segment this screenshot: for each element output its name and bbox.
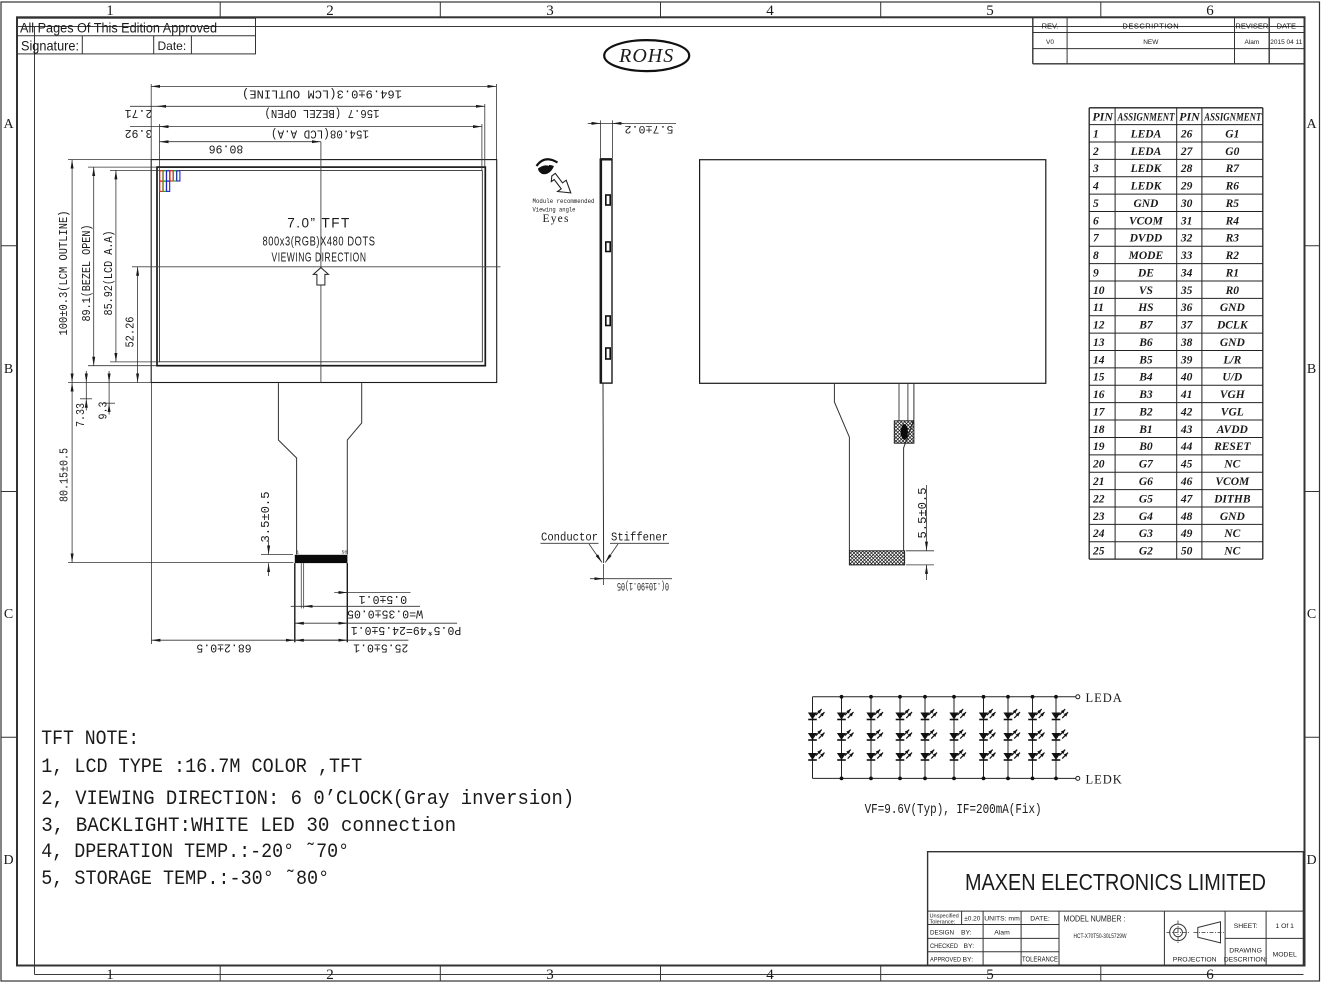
svg-text:16: 16 <box>1093 389 1105 401</box>
LED D1 <box>808 709 825 719</box>
pin assignment table <box>1088 108 1090 559</box>
svg-text:LEDA: LEDA <box>1086 691 1123 705</box>
svg-text:APPROVED: APPROVED <box>930 956 961 963</box>
svg-text:4: 4 <box>1092 181 1099 193</box>
LED D17 <box>949 730 966 740</box>
junction bottom rail col 4 <box>898 777 902 781</box>
svg-text:24: 24 <box>1092 528 1105 540</box>
side FPC bottom dim line <box>590 578 672 580</box>
svg-text:VCOM: VCOM <box>1129 215 1164 227</box>
svg-text:3: 3 <box>546 967 554 983</box>
LED D6 <box>837 750 854 760</box>
svg-text:2: 2 <box>326 967 334 983</box>
junction top rail col 2 <box>840 695 844 699</box>
wire LED string 2 <box>841 697 843 779</box>
svg-text:46: 46 <box>1180 476 1193 488</box>
svg-text:Stiffener: Stiffener <box>611 531 668 545</box>
svg-text:R1: R1 <box>1225 267 1239 279</box>
LED D19 <box>979 709 996 719</box>
svg-text:MAXEN ELECTRONICS LIMITED: MAXEN ELECTRONICS LIMITED <box>965 869 1266 895</box>
svg-text:21: 21 <box>1092 476 1105 488</box>
svg-text:10: 10 <box>1093 285 1105 297</box>
svg-text:LEDK: LEDK <box>1130 181 1163 193</box>
junction top rail col 4 <box>898 695 902 699</box>
front FPC connector black bar <box>295 555 348 563</box>
wire LED string 10 <box>1055 697 1057 779</box>
junction top rail col 3 <box>869 695 873 699</box>
svg-text:1: 1 <box>106 967 114 983</box>
junction top rail col 6 <box>952 695 956 699</box>
svg-text:DATE: DATE <box>1277 22 1296 31</box>
svg-text:4, DPERATION TEMP.:-20° ˜70°: 4, DPERATION TEMP.:-20° ˜70° <box>41 841 349 864</box>
svg-text:MODEL NUMBER :: MODEL NUMBER : <box>1064 915 1126 924</box>
svg-text:B6: B6 <box>1138 337 1153 349</box>
svg-text:5.5±0.5: 5.5±0.5 <box>917 487 930 538</box>
svg-text:PIN: PIN <box>1092 109 1114 123</box>
svg-text:V0: V0 <box>1046 39 1054 46</box>
front view horizontal centerline <box>147 266 501 268</box>
svg-text:Alam: Alam <box>994 929 1010 936</box>
wire LED string 6 <box>953 697 955 779</box>
svg-text:0.5±0.1: 0.5±0.1 <box>359 592 407 605</box>
svg-text:A: A <box>3 117 14 132</box>
svg-text:TFT NOTE:: TFT NOTE: <box>41 728 139 751</box>
LED D25 <box>1028 709 1045 719</box>
svg-text:G5: G5 <box>1139 493 1153 505</box>
svg-text:80.15±0.5: 80.15±0.5 <box>58 448 71 502</box>
LED D5 <box>837 730 854 740</box>
svg-text:3: 3 <box>1092 163 1099 175</box>
svg-text:80.96: 80.96 <box>209 142 244 155</box>
LED D30 <box>1051 750 1068 760</box>
svg-text:7.33: 7.33 <box>75 403 88 427</box>
dim 3.5 connector height <box>261 554 293 556</box>
svg-text:44: 44 <box>1180 441 1193 453</box>
LED D15 <box>920 750 937 760</box>
junction top rail col 7 <box>982 695 986 699</box>
svg-text:R2: R2 <box>1225 250 1240 262</box>
svg-text:UNITS: mm: UNITS: mm <box>984 916 1020 923</box>
back view outline rect <box>700 160 1046 384</box>
svg-text:18: 18 <box>1093 424 1105 436</box>
back view stiffener hatched bar <box>849 551 904 565</box>
svg-text:39: 39 <box>1180 354 1193 366</box>
svg-text:Module recommended: Module recommended <box>533 198 595 205</box>
svg-text:All Pages Of This Edition Appr: All Pages Of This Edition Approved <box>20 21 217 37</box>
svg-text:G3: G3 <box>1139 528 1153 540</box>
front view LCD active area rect <box>160 171 483 362</box>
svg-text:G4: G4 <box>1139 511 1153 523</box>
svg-text:30: 30 <box>1180 198 1193 210</box>
svg-text:0(.10±90.1)05: 0(.10±90.1)05 <box>617 579 669 591</box>
svg-text:5: 5 <box>1093 198 1099 210</box>
grid reference ticks right <box>1305 245 1320 247</box>
svg-text:VGH: VGH <box>1220 389 1246 401</box>
svg-text:100±0.3(LCM OUTLINE): 100±0.3(LCM OUTLINE) <box>58 211 71 336</box>
svg-text:B0: B0 <box>1138 441 1153 453</box>
eye symbol <box>537 159 558 166</box>
svg-text:VS: VS <box>1139 285 1153 297</box>
dim 80.15 tail length <box>68 562 294 564</box>
dim W=0.35 conductor width <box>291 605 420 607</box>
svg-text:G0: G0 <box>1225 146 1239 158</box>
svg-text:20: 20 <box>1092 459 1105 471</box>
LED D21 <box>979 750 996 760</box>
junction bottom rail col 3 <box>869 777 873 781</box>
svg-text:SHEET:: SHEET: <box>1234 923 1258 930</box>
svg-text:DE: DE <box>1137 267 1154 279</box>
LED D23 <box>1003 730 1020 740</box>
svg-text:PIN: PIN <box>1179 109 1201 123</box>
dim 68.2 tail offset <box>150 383 152 645</box>
svg-text:AVDD: AVDD <box>1216 424 1249 436</box>
grid reference ticks left <box>1 245 17 247</box>
svg-text:GND: GND <box>1133 198 1159 210</box>
svg-text:41: 41 <box>1180 389 1193 401</box>
LED D29 <box>1051 730 1068 740</box>
LED D28 <box>1051 709 1068 719</box>
LED D24 <box>1003 750 1020 760</box>
svg-text:NC: NC <box>1223 528 1240 540</box>
svg-text:50: 50 <box>1181 546 1193 558</box>
svg-text:RESET: RESET <box>1213 441 1251 453</box>
svg-text:Eyes: Eyes <box>543 213 570 225</box>
junction top rail col 5 <box>923 695 927 699</box>
svg-text:3.92: 3.92 <box>125 126 153 139</box>
svg-text:156.7 (BEZEL OPEN): 156.7 (BEZEL OPEN) <box>265 106 380 119</box>
svg-text:2: 2 <box>326 3 334 19</box>
grid reference ticks bottom <box>219 966 221 982</box>
svg-text:BY:: BY: <box>963 956 974 963</box>
wire LED string 4 <box>899 697 901 779</box>
LED D3 <box>808 750 825 760</box>
svg-text:6: 6 <box>1206 967 1214 983</box>
svg-text:68.2±0.5: 68.2±0.5 <box>196 641 251 654</box>
svg-text:DCLK: DCLK <box>1216 320 1249 332</box>
svg-text:49: 49 <box>1180 528 1193 540</box>
svg-text:B: B <box>1307 362 1316 377</box>
svg-text:1 Of 1: 1 Of 1 <box>1275 923 1294 930</box>
svg-text:37: 37 <box>1180 320 1194 332</box>
svg-text:LEDA: LEDA <box>1130 128 1162 140</box>
svg-text:3, BACKLIGHT:WHITE LED 30 conn: 3, BACKLIGHT:WHITE LED 30 connection <box>41 815 456 838</box>
svg-text:BY:: BY: <box>961 929 972 936</box>
back view FPC tail outline <box>834 383 914 550</box>
back view component wires <box>898 383 900 421</box>
dim 7.33 <box>80 398 92 400</box>
svg-text:VIEWING DIRECTION: VIEWING DIRECTION <box>272 251 367 265</box>
FPC highlighted conductor lines <box>300 563 302 608</box>
projection symbol cone <box>1198 922 1221 943</box>
svg-text:GND: GND <box>1220 337 1246 349</box>
svg-text:164.9±0.3(LCM OUTLINE): 164.9±0.3(LCM OUTLINE) <box>242 86 402 99</box>
svg-text:G6: G6 <box>1139 476 1153 488</box>
approval box <box>17 18 256 54</box>
svg-text:R3: R3 <box>1225 233 1240 245</box>
svg-text:2.71: 2.71 <box>125 106 153 119</box>
svg-text:1: 1 <box>1093 128 1099 140</box>
LED D26 <box>1028 730 1045 740</box>
svg-text:28: 28 <box>1180 163 1193 175</box>
LED D22 <box>1003 709 1020 719</box>
svg-text:19: 19 <box>1093 441 1105 453</box>
svg-text:2: 2 <box>1092 146 1099 158</box>
svg-text:6: 6 <box>1206 3 1214 19</box>
LED D16 <box>949 709 966 719</box>
svg-text:MODE: MODE <box>1128 250 1164 262</box>
svg-text:23: 23 <box>1092 511 1105 523</box>
svg-text:TOLERANCE: TOLERANCE <box>1022 956 1058 963</box>
svg-text:C: C <box>4 607 13 622</box>
svg-text:2, VIEWING DIRECTION: 6 0’CLOC: 2, VIEWING DIRECTION: 6 0’CLOCK(Gray inv… <box>41 788 574 811</box>
svg-text:40: 40 <box>1180 372 1193 384</box>
junction bottom rail col 10 <box>1054 777 1058 781</box>
junction bottom rail col 8 <box>1006 777 1010 781</box>
svg-text:5: 5 <box>986 967 994 983</box>
svg-text:13: 13 <box>1093 337 1105 349</box>
svg-text:DESIGN: DESIGN <box>930 929 954 936</box>
front FPC tail outline <box>278 383 361 554</box>
svg-text:Date:: Date: <box>158 39 187 53</box>
dim 85.92 active area height <box>110 169 160 171</box>
svg-text:LEDK: LEDK <box>1130 163 1163 175</box>
back view hatched component <box>894 421 914 443</box>
svg-text:Conductor: Conductor <box>541 531 598 545</box>
svg-text:A: A <box>1306 117 1317 132</box>
svg-text:G7: G7 <box>1139 459 1154 471</box>
terminal node LEDA <box>1076 695 1080 699</box>
front view vertical centerline <box>320 142 322 383</box>
dim 80.96 <box>159 124 161 170</box>
svg-text:154.08(LCD A.A): 154.08(LCD A.A) <box>271 126 369 139</box>
title block grid <box>928 910 1304 912</box>
svg-text:5: 5 <box>986 3 994 19</box>
dim 100 LCM outline height <box>68 159 151 161</box>
svg-text:GND: GND <box>1220 302 1246 314</box>
svg-text:2015 04 11: 2015 04 11 <box>1270 39 1302 46</box>
svg-text:47: 47 <box>1180 493 1194 505</box>
svg-text:4: 4 <box>766 3 774 19</box>
svg-text:G2: G2 <box>1139 546 1153 558</box>
svg-text:7.0” TFT: 7.0” TFT <box>287 216 351 231</box>
svg-text:8: 8 <box>1093 250 1099 262</box>
LED D10 <box>895 709 912 719</box>
junction bottom rail col 7 <box>982 777 986 781</box>
svg-text:LEDK: LEDK <box>1086 772 1123 786</box>
svg-text:B5: B5 <box>1138 354 1153 366</box>
svg-text:R4: R4 <box>1225 215 1240 227</box>
svg-text:25.5±0.1: 25.5±0.1 <box>353 641 408 654</box>
svg-text:CHECKED: CHECKED <box>930 943 958 950</box>
revision table <box>1032 17 1034 64</box>
wire LED string 8 <box>1007 697 1009 779</box>
svg-text:3: 3 <box>546 3 554 19</box>
svg-text:D: D <box>3 853 13 868</box>
svg-text:36: 36 <box>1180 302 1193 314</box>
svg-text:11: 11 <box>1093 302 1104 314</box>
LED D8 <box>866 730 883 740</box>
svg-text:4: 4 <box>766 967 774 983</box>
junction top rail col 10 <box>1054 695 1058 699</box>
svg-text:B1: B1 <box>1138 424 1152 436</box>
svg-text:ASSIGNMENT: ASSIGNMENT <box>1204 109 1262 123</box>
svg-text:34: 34 <box>1180 267 1193 279</box>
svg-text:800x3(RGB)X480 DOTS: 800x3(RGB)X480 DOTS <box>263 235 376 249</box>
wire LEDK bottom rail <box>813 777 1077 779</box>
svg-text:R0: R0 <box>1225 285 1240 297</box>
dim 164.9 LCM outline width <box>150 84 152 160</box>
svg-text:38: 38 <box>1180 337 1193 349</box>
svg-text:R7: R7 <box>1225 163 1241 175</box>
svg-text:LEDA: LEDA <box>1130 146 1162 158</box>
projection symbol circle <box>1170 924 1187 941</box>
svg-text:42: 42 <box>1180 406 1193 418</box>
svg-text:R5: R5 <box>1225 198 1240 210</box>
wire LED string 5 <box>924 697 926 779</box>
svg-text:±0.20: ±0.20 <box>964 916 981 923</box>
side view FPC line <box>602 383 605 563</box>
LED D4 <box>837 709 854 719</box>
svg-text:B3: B3 <box>1138 389 1153 401</box>
svg-text:3.5±0.5: 3.5±0.5 <box>260 491 273 542</box>
svg-text:6: 6 <box>1093 215 1099 227</box>
LED D20 <box>979 730 996 740</box>
svg-text:REVISER: REVISER <box>1235 22 1269 31</box>
svg-text:14: 14 <box>1093 354 1105 366</box>
FPC connector side edges below bar <box>294 563 296 642</box>
RGB pixel array top-left <box>160 171 163 181</box>
svg-text:26: 26 <box>1180 128 1193 140</box>
viewing angle pointer arrow <box>551 173 571 193</box>
svg-text:17: 17 <box>1093 406 1106 418</box>
svg-text:1, LCD TYPE :16.7M COLOR ,TFT: 1, LCD TYPE :16.7M COLOR ,TFT <box>41 756 362 779</box>
svg-text:VGL: VGL <box>1221 406 1244 418</box>
LED D18 <box>949 750 966 760</box>
svg-text:32: 32 <box>1180 233 1193 245</box>
svg-text:85.92(LCD A.A): 85.92(LCD A.A) <box>103 231 116 316</box>
svg-text:L/R: L/R <box>1222 354 1241 366</box>
side view connector bumps <box>606 195 610 205</box>
svg-text:48: 48 <box>1180 511 1193 523</box>
title block outer <box>928 852 1304 966</box>
svg-text:VCOM: VCOM <box>1215 476 1250 488</box>
wire LED string 9 <box>1032 697 1034 779</box>
junction bottom rail col 9 <box>1031 777 1035 781</box>
svg-text:43: 43 <box>1180 424 1193 436</box>
svg-text:31: 31 <box>1180 215 1193 227</box>
svg-text:GND: GND <box>1220 511 1246 523</box>
side view body <box>600 160 612 383</box>
svg-text:25: 25 <box>1092 546 1105 558</box>
grid reference ticks top <box>219 2 221 17</box>
ROHS logo ellipse <box>604 40 689 71</box>
svg-text:29: 29 <box>1180 181 1193 193</box>
svg-text:REV.: REV. <box>1042 22 1059 31</box>
svg-text:ASSIGNMENT: ASSIGNMENT <box>1117 109 1175 123</box>
svg-text:5, STORAGE TEMP.:-30° ˜80°: 5, STORAGE TEMP.:-30° ˜80° <box>41 868 329 891</box>
svg-text:89.1(BEZEL OPEN): 89.1(BEZEL OPEN) <box>81 225 94 322</box>
leader arrows to FPC tip <box>589 544 602 563</box>
LED D12 <box>895 750 912 760</box>
dim 156.7 bezel open width <box>484 104 486 167</box>
junction bottom rail col 5 <box>923 777 927 781</box>
svg-text:NC: NC <box>1223 546 1240 558</box>
dim 52.26 <box>132 266 147 268</box>
LED D7 <box>866 709 883 719</box>
svg-text:HCT-X70T50-30L5729W: HCT-X70T50-30L5729W <box>1074 933 1128 940</box>
svg-text:9.3: 9.3 <box>98 401 111 419</box>
LED D11 <box>895 730 912 740</box>
svg-text:Tolerance:: Tolerance: <box>930 919 956 925</box>
svg-text:1: 1 <box>296 550 299 556</box>
svg-text:P0.5*49=24.5±0.1: P0.5*49=24.5±0.1 <box>351 623 462 636</box>
svg-text:DATE:: DATE: <box>1030 916 1050 923</box>
svg-text:PROJECTION: PROJECTION <box>1173 956 1217 963</box>
svg-text:NEW: NEW <box>1143 39 1159 46</box>
svg-text:U/D: U/D <box>1222 372 1243 384</box>
inner drawing frame <box>34 27 36 975</box>
svg-text:Alam: Alam <box>1244 39 1259 46</box>
svg-text:MODEL: MODEL <box>1273 952 1297 959</box>
svg-text:NC: NC <box>1223 459 1240 471</box>
dim 0.5 edge margin <box>334 592 410 594</box>
svg-text:DESCRIPTION: DESCRIPTION <box>1122 22 1179 31</box>
svg-text:45: 45 <box>1180 459 1193 471</box>
viewing direction hollow arrow <box>313 268 328 285</box>
dim 25.5 connector width <box>288 639 409 641</box>
svg-text:15: 15 <box>1093 372 1105 384</box>
svg-text:52.26: 52.26 <box>125 316 138 347</box>
LED D9 <box>866 750 883 760</box>
wire LEDA top rail <box>813 696 1077 698</box>
LED D14 <box>920 730 937 740</box>
dim 9.3 <box>103 402 115 404</box>
svg-text:B7: B7 <box>1138 320 1154 332</box>
front view bezel opening rect <box>157 167 485 366</box>
junction bottom rail col 2 <box>840 777 844 781</box>
svg-text:B4: B4 <box>1138 372 1153 384</box>
svg-text:ROHS: ROHS <box>618 45 674 67</box>
svg-text:HS: HS <box>1137 302 1153 314</box>
svg-text:1: 1 <box>106 3 114 19</box>
wire LED string 7 <box>983 697 985 779</box>
svg-text:D: D <box>1306 853 1316 868</box>
junction bottom rail col 6 <box>952 777 956 781</box>
junction top rail col 8 <box>1006 695 1010 699</box>
svg-text:W=0.35±0.05: W=0.35±0.05 <box>347 606 423 619</box>
svg-text:33: 33 <box>1180 250 1193 262</box>
svg-text:9: 9 <box>1093 267 1099 279</box>
LED D13 <box>920 709 937 719</box>
dim 89.1 bezel open height <box>88 166 157 168</box>
svg-text:50: 50 <box>342 550 348 556</box>
svg-text:5.7±0.2: 5.7±0.2 <box>625 122 674 134</box>
svg-text:35: 35 <box>1180 285 1193 297</box>
svg-text:DVDD: DVDD <box>1129 233 1163 245</box>
dim P0.5*49 pitch <box>295 622 457 624</box>
dim 154.08 LCD active area width <box>481 124 483 170</box>
junction top rail col 9 <box>1031 695 1035 699</box>
svg-text:Signature:: Signature: <box>21 38 79 54</box>
LED D27 <box>1028 750 1045 760</box>
dim 5.5 stiffener tail <box>906 550 934 552</box>
svg-text:G1: G1 <box>1225 128 1239 140</box>
svg-text:R6: R6 <box>1225 181 1240 193</box>
wire LED string 3 <box>870 697 872 779</box>
svg-text:DESCRITION:: DESCRITION: <box>1224 956 1268 963</box>
svg-text:B: B <box>4 362 13 377</box>
svg-text:B2: B2 <box>1138 406 1153 418</box>
